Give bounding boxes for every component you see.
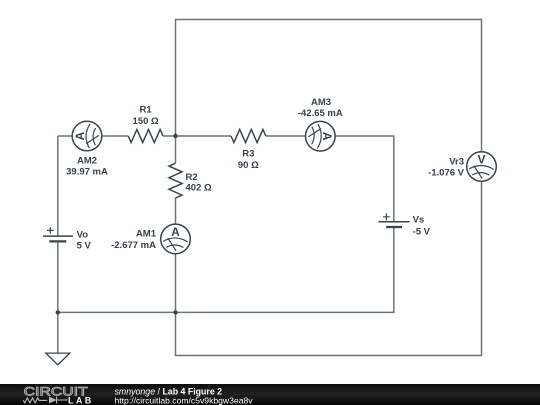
svg-text:402 Ω: 402 Ω — [186, 183, 212, 194]
svg-text:A: A — [171, 225, 180, 239]
svg-text:-1.076 V: -1.076 V — [428, 168, 465, 179]
svg-text:Vr3: Vr3 — [449, 156, 464, 167]
svg-text:R3: R3 — [242, 149, 254, 160]
svg-text:-2.677 mA: -2.677 mA — [111, 240, 156, 251]
svg-text:V: V — [477, 153, 485, 167]
svg-text:R2: R2 — [186, 172, 198, 183]
svg-text:R1: R1 — [140, 105, 153, 116]
svg-text:-5 V: -5 V — [413, 226, 431, 237]
svg-text:A: A — [73, 131, 87, 140]
svg-text:Vs: Vs — [413, 214, 425, 225]
svg-text:Vo: Vo — [77, 229, 89, 240]
svg-text:150 Ω: 150 Ω — [133, 116, 159, 127]
svg-text:AM2: AM2 — [77, 156, 97, 167]
svg-text:A: A — [320, 132, 334, 141]
svg-text:5 V: 5 V — [77, 241, 92, 252]
svg-text:39.97 mA: 39.97 mA — [66, 167, 108, 178]
svg-text:LAB: LAB — [68, 396, 94, 405]
svg-text:AM3: AM3 — [311, 97, 331, 108]
svg-text:AM1: AM1 — [136, 228, 157, 239]
svg-text:-42.65 mA: -42.65 mA — [298, 108, 343, 119]
svg-text:90 Ω: 90 Ω — [238, 160, 259, 171]
svg-text:http://circuitlab.com/c5v9kbgw: http://circuitlab.com/c5v9kbgw3ea8v — [115, 395, 254, 405]
